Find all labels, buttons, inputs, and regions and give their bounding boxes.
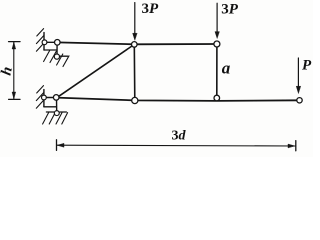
top support: main node circle A_top — [55, 40, 61, 46]
dimension h: bottom tick bar — [9, 98, 20, 100]
svg-text:3d: 3d — [172, 128, 187, 143]
top support: wall bracket line — [44, 49, 57, 51]
bottom support: wall hatching — [36, 86, 43, 109]
top support: wall hatching — [36, 29, 43, 52]
diagonal member A_bot to B — [58, 44, 135, 97]
vertical member B-D — [133, 44, 136, 100]
dimension h: vertical line — [13, 42, 15, 99]
load P arrow shaft — [297, 58, 299, 88]
bottom support: vertical link to ground pin — [56, 98, 58, 112]
bottom support: wall bracket line — [44, 106, 57, 108]
load 3P #2 arrow shaft — [216, 3, 218, 32]
svg-text:P: P — [302, 58, 312, 74]
svg-text:3P: 3P — [221, 2, 239, 18]
top support: ground hatching — [44, 51, 69, 67]
node F circle (right end) — [297, 98, 302, 103]
load 3P #1 arrowhead — [133, 33, 137, 40]
bottom chord (member from left support to right end F) — [56, 98, 299, 101]
node E circle (bottom, rests on chord) — [214, 95, 220, 101]
svg-text:3P: 3P — [142, 1, 160, 17]
dimension 3d: right arrowhead — [288, 144, 295, 148]
top chord (member from left support to node C) — [57, 42, 217, 44]
dimension h: top tick bar — [9, 41, 20, 43]
bottom support: wall pin circle — [42, 95, 47, 100]
top support: ground pin circle — [54, 54, 59, 59]
load P arrowhead — [296, 86, 300, 93]
node D circle (bottom) — [132, 97, 138, 103]
svg-text:a: a — [222, 59, 231, 78]
node C circle (top, second load) — [214, 41, 220, 47]
load 3P #1 arrow shaft — [134, 3, 136, 35]
bottom support: main node circle A_bot — [53, 95, 59, 101]
top support: wall line — [43, 33, 45, 50]
node B circle (top, first load) — [132, 42, 138, 48]
top support: ground line right of pin — [60, 55, 68, 57]
dimension h: top arrowhead — [12, 42, 16, 49]
dimension 3d: left tick — [56, 140, 58, 151]
bottom support: ground line — [46, 111, 66, 113]
bottom support: link wall-pin to node — [45, 97, 56, 99]
dimension 3d: horizontal line — [57, 144, 296, 147]
dimension 3d: right tick — [295, 141, 297, 151]
dimension h: bottom arrowhead — [12, 92, 16, 99]
bottom support: ground hatching — [43, 113, 68, 124]
vertical member C-E (labelled a) — [216, 44, 218, 96]
top support: link wall-pin to node — [45, 41, 57, 43]
load 3P #2 arrowhead — [215, 32, 219, 39]
bottom support: ground pin circle — [54, 111, 59, 116]
top support: wall pin circle — [42, 40, 47, 45]
top support: vertical link to ground pin — [56, 43, 58, 56]
bottom support: wall line — [43, 90, 45, 107]
dimension 3d: left arrowhead — [57, 143, 64, 147]
